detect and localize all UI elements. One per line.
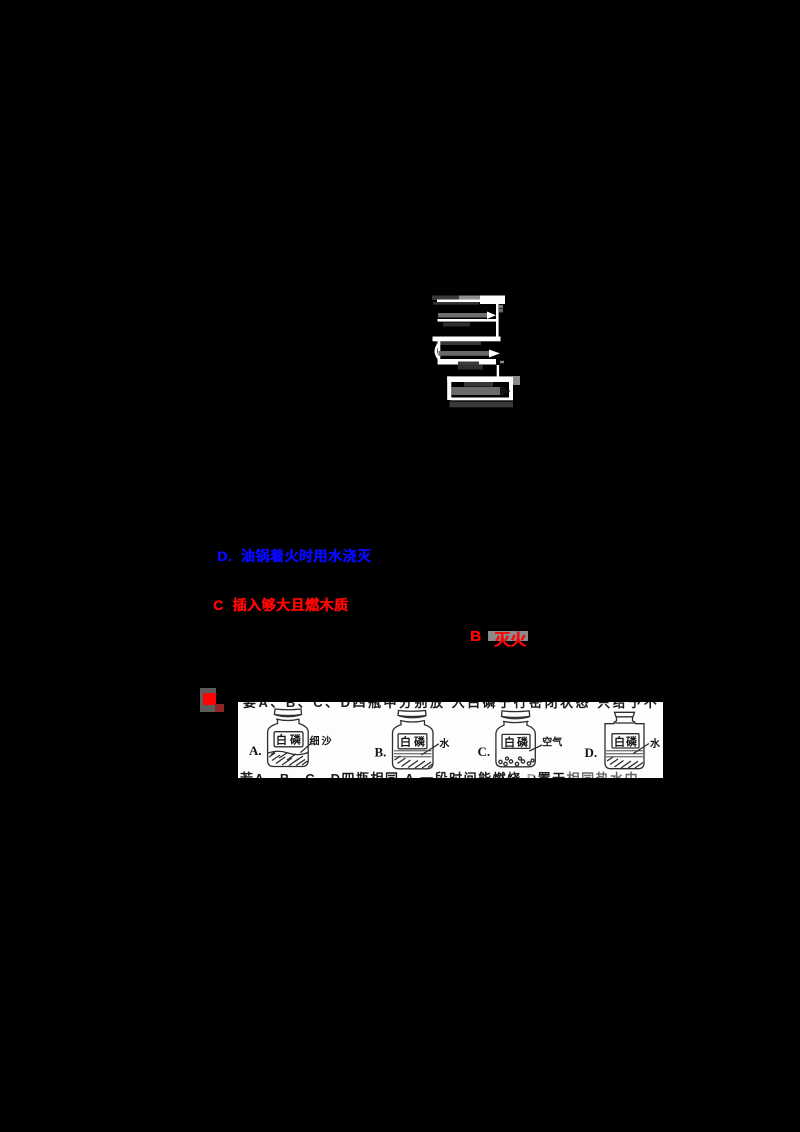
svg-text:细沙: 细沙 [310, 735, 332, 748]
svg-text:空气: 空气 [542, 736, 562, 749]
svg-text:B.: B. [375, 745, 387, 760]
svg-text:白磷: 白磷 [276, 733, 302, 747]
svg-text:水: 水 [438, 737, 450, 750]
svg-text:白磷: 白磷 [504, 735, 529, 749]
svg-text:C.: C. [478, 744, 491, 759]
svg-text:D.: D. [585, 745, 598, 760]
svg-text:白磷: 白磷 [400, 735, 426, 749]
svg-text:A.: A. [249, 743, 262, 758]
svg-text:白磷: 白磷 [614, 734, 638, 748]
svg-text:水: 水 [649, 737, 661, 750]
